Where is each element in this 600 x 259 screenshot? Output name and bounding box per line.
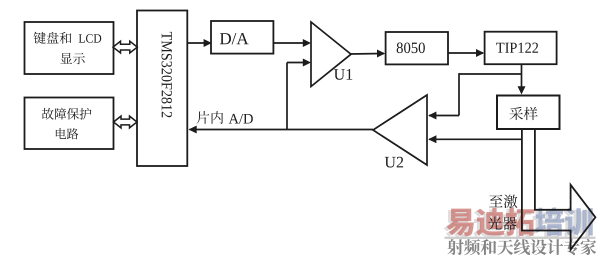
wire U2 output / on-chip A/D bbox=[190, 129, 374, 131]
watermark underline bbox=[445, 237, 596, 239]
box DSP TMS320F2812 bbox=[137, 11, 187, 167]
bidirectional bus keyboard-DSP bbox=[113, 41, 137, 53]
wire into U1 lower input bbox=[287, 62, 309, 64]
wire sampling to U2 lower input bbox=[429, 138, 522, 140]
box TIP122 bbox=[485, 32, 557, 64]
label U1 bbox=[334, 69, 352, 80]
arrowhead into TIP122 bbox=[476, 49, 484, 57]
op-amp U1 bbox=[311, 22, 351, 87]
watermark tagline 射频和天线设计专家 bbox=[447, 239, 596, 255]
label 光器 bbox=[488, 217, 516, 230]
arrowhead into U1 top input bbox=[303, 39, 311, 47]
wire feedback branch vertical bbox=[458, 73, 460, 115]
box 8050 bbox=[386, 32, 448, 64]
label 8050 bbox=[397, 42, 425, 53]
watermark 易迪拓 (red) bbox=[446, 207, 534, 236]
arrowhead into 8050 bbox=[377, 50, 385, 58]
wire 8050 to TIP122 bbox=[448, 52, 483, 54]
box keyboard/LCD display bbox=[25, 22, 114, 74]
bidirectional bus fault-DSP bbox=[114, 116, 138, 128]
box D/A bbox=[211, 21, 273, 54]
wire TIP122 down to sampling bbox=[521, 64, 523, 92]
label U2 bbox=[385, 157, 403, 168]
watermark 培训 (blue) bbox=[535, 207, 592, 236]
label 显示 bbox=[60, 53, 84, 64]
wire DSP to D/A bbox=[187, 42, 210, 44]
label D/A bbox=[220, 33, 249, 44]
arrowhead U2 upper input bbox=[428, 112, 436, 120]
wire D/A to U1 bbox=[273, 42, 309, 44]
wire feedback branch horizontal bbox=[459, 73, 522, 75]
op-amp U2 bbox=[373, 95, 427, 165]
label TIP122 bbox=[496, 43, 538, 53]
label 电路 bbox=[56, 128, 79, 139]
wire branch up to U1 lower input bbox=[286, 63, 288, 130]
label TMS320F2812 (rotated) bbox=[162, 32, 172, 118]
label 至激 bbox=[489, 195, 517, 208]
box sampling 采样 bbox=[497, 96, 560, 130]
wire U1 output to 8050 bbox=[350, 53, 384, 56]
label 片内 A/D bbox=[197, 111, 253, 124]
wire into U2 upper input bbox=[429, 115, 459, 117]
hollow arrow to laser bbox=[522, 129, 596, 250]
label 故障保护 bbox=[42, 108, 92, 120]
label 采样 bbox=[510, 107, 538, 120]
label 键盘和 LCD bbox=[34, 32, 102, 44]
arrowhead into DSP A/D bbox=[189, 126, 197, 134]
arrowhead into sampling box bbox=[518, 86, 526, 94]
arrowhead U2 lower input bbox=[428, 135, 436, 143]
watermark shadow 易迪拓培训 bbox=[443, 209, 589, 238]
arrowhead into D/A bbox=[204, 39, 212, 47]
box fault-protection circuit bbox=[25, 98, 114, 150]
arrowhead U1 lower input bbox=[303, 59, 311, 67]
